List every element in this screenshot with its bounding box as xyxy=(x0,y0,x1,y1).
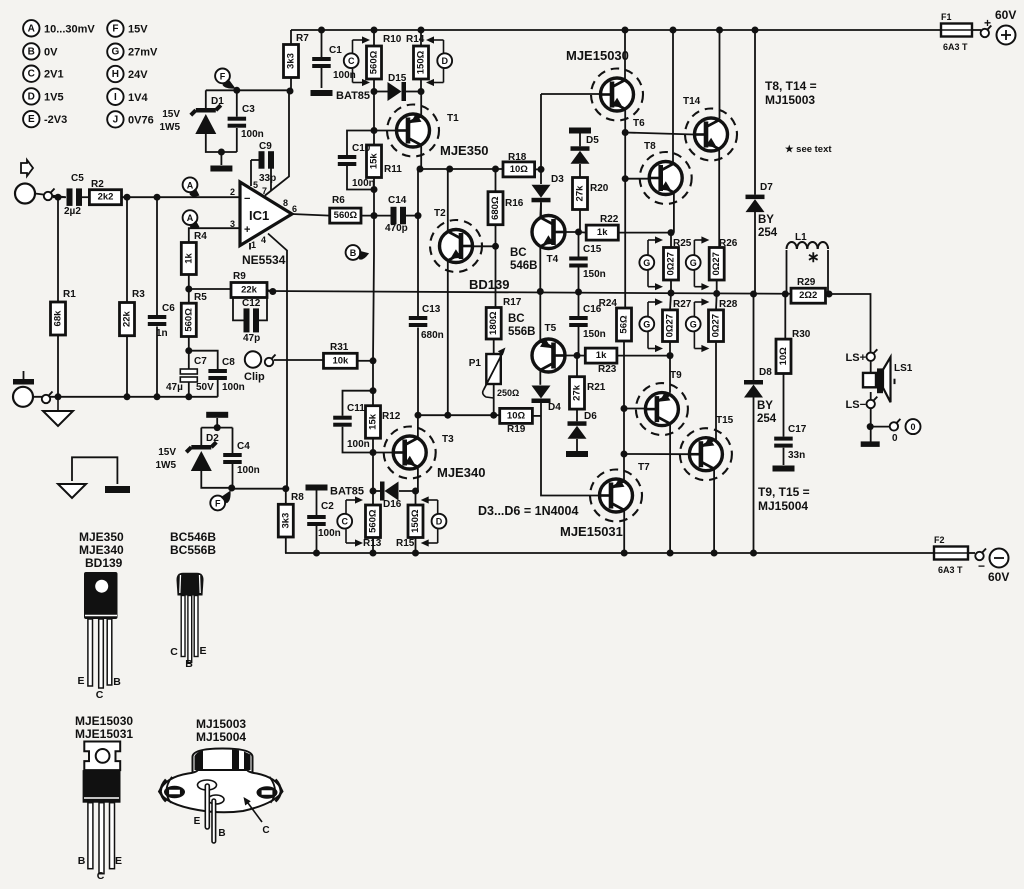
wire C12 left leg xyxy=(233,298,244,320)
svg-text:G: G xyxy=(112,47,120,58)
svg-text:27mV: 27mV xyxy=(128,47,158,59)
resistor R4 xyxy=(181,231,207,275)
svg-text:27k: 27k xyxy=(572,384,583,401)
svg-text:-2V3: -2V3 xyxy=(44,114,67,126)
svg-text:0: 0 xyxy=(892,433,898,444)
legend node H xyxy=(107,66,148,82)
IC1 pin 5 label xyxy=(253,180,258,190)
wire R28 bottom xyxy=(715,342,717,441)
wire D16 to R15 node xyxy=(399,490,416,492)
junction R22/R25 xyxy=(668,229,675,236)
wire C1 top xyxy=(321,30,323,57)
IC1 pin 1 label xyxy=(251,240,256,250)
wire T5 base to R23 xyxy=(577,355,585,357)
svg-text:150n: 150n xyxy=(583,329,606,340)
wire T8 base xyxy=(625,178,649,180)
wire T5 base xyxy=(557,355,577,357)
wire IC1 pin4 xyxy=(268,234,287,489)
note output transistors pnp xyxy=(758,485,810,499)
wire top rail fuse to terminal xyxy=(972,29,981,31)
wire R27 bottom xyxy=(669,342,671,393)
svg-text:D1: D1 xyxy=(211,96,224,107)
svg-text:0Ω27: 0Ω27 xyxy=(711,252,722,275)
svg-text:F: F xyxy=(215,499,221,509)
label D3...D6 xyxy=(478,504,578,518)
junction C6 top xyxy=(154,194,161,201)
resistor R22 xyxy=(586,214,619,240)
svg-text:C11: C11 xyxy=(347,403,365,414)
junction C14/bootstrap xyxy=(415,212,422,219)
junction LS-/ground xyxy=(867,423,874,430)
svg-text:1W5: 1W5 xyxy=(159,122,180,133)
legend node B xyxy=(23,43,58,59)
svg-text:R26: R26 xyxy=(719,238,738,249)
wire T4 emitter xyxy=(539,246,541,291)
svg-text:C12: C12 xyxy=(242,298,261,309)
connector 0 xyxy=(890,419,901,431)
svg-text:R6: R6 xyxy=(332,195,345,206)
svg-text:MJE350: MJE350 xyxy=(440,143,488,158)
bracket D/R15 xyxy=(421,496,438,546)
diode D16 xyxy=(380,482,402,511)
svg-text:BAT85: BAT85 xyxy=(330,486,364,498)
junction rail/D8 xyxy=(750,550,757,557)
svg-text:546B: 546B xyxy=(510,260,538,272)
svg-text:MJ15004: MJ15004 xyxy=(758,499,808,513)
transistor T6 MJE15030 xyxy=(566,48,645,129)
op-amp IC1 NE5534 xyxy=(240,182,292,246)
svg-text:−: − xyxy=(978,559,985,573)
wire T3 base xyxy=(373,452,393,454)
svg-text:MJE15031: MJE15031 xyxy=(75,727,133,741)
wire R1 bottom xyxy=(57,335,59,397)
wire D2/C4 loop top xyxy=(201,427,232,429)
svg-text:2Ω2: 2Ω2 xyxy=(799,290,817,301)
svg-text:D7: D7 xyxy=(760,182,773,193)
svg-text:C13: C13 xyxy=(422,304,441,315)
capacitor C13 xyxy=(409,304,444,341)
svg-text:R16: R16 xyxy=(505,198,524,209)
junction rail/T6 xyxy=(622,27,629,34)
svg-text:1k: 1k xyxy=(597,227,608,238)
svg-text:E: E xyxy=(77,675,84,687)
junction R6/R11 line xyxy=(371,212,378,219)
junction R9 right/output line xyxy=(269,288,276,295)
wire D16 row xyxy=(373,490,380,492)
label BAT85 top xyxy=(336,90,370,102)
svg-text:150Ω: 150Ω xyxy=(410,509,421,533)
wire C12 right leg xyxy=(257,298,268,320)
IC1 pin 4 label xyxy=(261,235,266,245)
wire output/feedback line xyxy=(267,291,829,294)
junction T1 base xyxy=(371,127,378,134)
measure point A (pin2) xyxy=(183,177,200,196)
bracket G/R26 xyxy=(694,236,709,290)
svg-text:68k: 68k xyxy=(53,310,64,327)
svg-text:T9: T9 xyxy=(670,370,682,381)
junction pin4/R8 xyxy=(282,485,289,492)
legend node A xyxy=(23,20,95,36)
wire C7 bottom xyxy=(188,382,190,397)
junction rail/R3 xyxy=(124,393,131,400)
wire bias vertical to R24 xyxy=(624,230,626,308)
wire T14 base xyxy=(625,133,694,135)
wire C2 top xyxy=(316,491,318,516)
svg-text:470p: 470p xyxy=(385,223,408,234)
svg-text:+: + xyxy=(984,16,991,30)
capacitor C11 xyxy=(333,403,370,450)
diode D1 zener xyxy=(159,96,224,134)
svg-text:R20: R20 xyxy=(590,183,609,194)
resistor R16 xyxy=(488,192,524,225)
input connector bottom contact xyxy=(42,392,53,404)
wire IC1 output xyxy=(292,214,330,216)
wire T15 collector xyxy=(713,469,715,554)
junction C15/C16 output xyxy=(575,289,582,296)
junction rail/R1 xyxy=(55,393,62,400)
svg-text:C: C xyxy=(348,56,355,66)
svg-text:R14: R14 xyxy=(406,34,425,45)
svg-text:I: I xyxy=(114,92,117,103)
svg-text:100n: 100n xyxy=(222,382,245,393)
wire T8e to R25 xyxy=(670,233,672,248)
svg-text:R8: R8 xyxy=(291,492,304,503)
wire T4 base to R22 xyxy=(579,231,587,234)
ground bar speaker xyxy=(861,441,880,447)
resistor R2 xyxy=(89,179,121,205)
transistor T4 BC546B xyxy=(510,216,565,273)
svg-text:22k: 22k xyxy=(241,285,258,296)
transistor T8 xyxy=(640,141,692,204)
svg-text:D3...D6 = 1N4004: D3...D6 = 1N4004 xyxy=(478,504,578,518)
svg-text:J: J xyxy=(113,114,119,125)
svg-text:560Ω: 560Ω xyxy=(368,509,379,533)
svg-text:MJE350: MJE350 xyxy=(79,530,124,544)
svg-text:MJE15031: MJE15031 xyxy=(560,524,623,539)
input jack arrow symbol xyxy=(21,160,33,176)
wire C4 bottom xyxy=(232,464,234,488)
ground symbol triangle xyxy=(58,484,86,498)
svg-text:56Ω: 56Ω xyxy=(619,315,630,334)
wire F node to R8 xyxy=(232,488,286,490)
junction T2 base xyxy=(492,243,499,250)
wire LS- down xyxy=(870,408,872,441)
wire T8 collector xyxy=(672,30,674,162)
wire Clip to R31 xyxy=(274,359,324,361)
wire T1 collector xyxy=(418,145,421,169)
junction R23/R27 xyxy=(667,352,674,359)
measure point D top xyxy=(437,53,452,68)
wire T1 base xyxy=(374,130,397,132)
resistor R25 xyxy=(664,238,692,280)
resistor R20 xyxy=(573,178,609,210)
terminal bar D6 bottom xyxy=(566,451,588,457)
wire D6 bottom stem xyxy=(576,439,578,451)
diode D3 xyxy=(532,174,565,202)
svg-text:D6: D6 xyxy=(584,411,597,422)
wire input to C5 xyxy=(35,194,65,198)
connector LS- xyxy=(846,397,878,411)
wire C10 bottom leg xyxy=(347,166,374,190)
terminal bar C2 top xyxy=(306,485,328,491)
wire node to R9 xyxy=(189,288,231,290)
svg-text:0Ω27: 0Ω27 xyxy=(665,314,676,337)
wire driver vertical mid xyxy=(373,216,374,391)
wire bootstrap vertical xyxy=(417,169,419,316)
terminal -60V xyxy=(978,549,1009,585)
resistor R15 xyxy=(396,505,423,549)
resistor R9 xyxy=(231,271,267,298)
wire D1 leg xyxy=(205,90,207,108)
wire R3 bottom xyxy=(126,336,128,397)
svg-text:100n: 100n xyxy=(318,528,341,539)
wire R16 bottom xyxy=(495,225,497,247)
svg-text:B: B xyxy=(78,855,86,867)
svg-text:Clip: Clip xyxy=(244,371,265,383)
svg-text:0V76: 0V76 xyxy=(128,114,154,126)
wire C6 stem top xyxy=(156,197,158,315)
IC1 pin 2 label xyxy=(230,187,235,197)
capacitor C5 xyxy=(64,173,84,217)
measure point G 2 xyxy=(686,255,701,270)
measure point F top xyxy=(215,69,235,89)
svg-text:33n: 33n xyxy=(788,450,805,461)
svg-text:D: D xyxy=(436,517,443,527)
svg-text:F: F xyxy=(112,24,118,35)
wire T2 base xyxy=(473,245,496,247)
svg-text:T3: T3 xyxy=(442,434,454,445)
junction R7 bottom xyxy=(287,88,294,95)
svg-text:R5: R5 xyxy=(194,292,207,303)
junction rail/R15 xyxy=(412,550,419,557)
chassis bar above bottom connector xyxy=(13,371,34,385)
wire R2 to IC1 pin2 xyxy=(122,196,241,198)
svg-text:G: G xyxy=(643,258,650,268)
junction R11/C10 bottom xyxy=(371,186,378,193)
wire C9 left xyxy=(251,159,259,161)
wire R17 to P1 xyxy=(493,339,495,354)
svg-text:R15: R15 xyxy=(396,538,415,549)
svg-text:60V: 60V xyxy=(995,8,1016,22)
legend node I xyxy=(107,89,148,105)
junction P1/R19 line xyxy=(490,412,497,419)
wire R28 top xyxy=(715,294,718,310)
svg-text:BC546B: BC546B xyxy=(170,530,216,544)
svg-text:15V: 15V xyxy=(162,109,180,120)
svg-text:2k2: 2k2 xyxy=(98,192,114,203)
svg-text:C2: C2 xyxy=(321,501,334,512)
junction rail/T7 xyxy=(621,550,628,557)
note output transistors pnp 2 xyxy=(758,499,808,513)
wire T6 base line xyxy=(541,93,603,95)
junction rail/C6 xyxy=(154,393,161,400)
wire R14 to D15 node xyxy=(420,79,422,92)
resistor R27 xyxy=(663,299,692,342)
svg-text:C9: C9 xyxy=(259,141,272,152)
wire D3 chain top xyxy=(540,94,542,184)
bracket C/R13 xyxy=(346,496,363,546)
wire R8 bottom xyxy=(285,537,287,553)
svg-text:C1: C1 xyxy=(329,45,342,56)
wire -60V bottom rail xyxy=(285,552,934,554)
wire C4 leg xyxy=(232,428,234,453)
wire R27 top xyxy=(670,293,671,310)
svg-text:T1: T1 xyxy=(447,113,459,124)
transistor T9 xyxy=(636,370,688,435)
wire D8 bottom xyxy=(753,398,755,554)
svg-text:E: E xyxy=(199,645,206,657)
capacitor C15 xyxy=(569,244,606,280)
svg-text:−: − xyxy=(244,193,250,205)
svg-text:BY: BY xyxy=(758,214,774,226)
wire T4 base xyxy=(557,231,579,233)
legend node G xyxy=(107,44,158,60)
wire R9 to output line xyxy=(267,290,273,292)
svg-text:R24: R24 xyxy=(599,298,618,309)
terminal bar D2/C4 top xyxy=(206,412,228,418)
resistor R18 xyxy=(503,152,535,177)
svg-text:G: G xyxy=(643,320,650,330)
IC1 type NE5534 xyxy=(242,253,286,267)
svg-text:R31: R31 xyxy=(330,342,349,353)
label 0 xyxy=(892,433,898,444)
wire D5 stem xyxy=(579,134,581,147)
junction D1/C3 node F xyxy=(233,87,240,94)
resistor R11 xyxy=(367,145,403,178)
transistor T1 MJE350 xyxy=(387,105,488,159)
potentiometer P1 xyxy=(469,348,519,399)
svg-text:6: 6 xyxy=(292,204,297,214)
svg-text:R10: R10 xyxy=(383,34,402,45)
legend node J xyxy=(107,111,154,127)
svg-text:R28: R28 xyxy=(719,299,738,310)
legend node C xyxy=(23,66,63,82)
capacitor C4 xyxy=(223,441,260,476)
wire C16 stem xyxy=(578,292,580,316)
wire C15 stem xyxy=(578,232,580,257)
svg-text:E: E xyxy=(115,855,122,867)
wire D7 top xyxy=(754,30,756,195)
svg-text:100n: 100n xyxy=(241,129,264,140)
junction rail/C7 xyxy=(185,393,192,400)
svg-text:+: + xyxy=(244,224,250,236)
wire R21 stem xyxy=(576,356,578,377)
diode D15 xyxy=(388,73,407,101)
svg-text:BC556B: BC556B xyxy=(170,543,216,557)
svg-text:47p: 47p xyxy=(243,333,260,344)
wire C5 to R2 xyxy=(80,196,89,198)
svg-text:F: F xyxy=(220,71,226,81)
wire R10 top xyxy=(373,30,375,46)
wire LS+ to speaker xyxy=(870,361,872,373)
svg-text:D3: D3 xyxy=(551,174,564,185)
fuse F2 xyxy=(934,535,968,575)
svg-text:5: 5 xyxy=(253,180,258,190)
wire T14 emitter xyxy=(718,149,720,248)
svg-text:LS+: LS+ xyxy=(846,352,866,364)
resistor R5 xyxy=(181,292,207,337)
wire C6 bottom xyxy=(156,327,158,397)
svg-text:NE5534: NE5534 xyxy=(242,253,286,267)
wire R14 top xyxy=(420,30,422,46)
svg-text:C17: C17 xyxy=(788,424,807,435)
svg-text:1V5: 1V5 xyxy=(44,91,64,103)
svg-text:BY: BY xyxy=(757,400,773,412)
wire R4 to R5 xyxy=(188,275,190,304)
svg-text:33p: 33p xyxy=(259,173,276,184)
measure point A (pin3) xyxy=(183,210,200,229)
wire R11 top xyxy=(373,131,375,146)
wire D3 to T4 xyxy=(540,202,542,217)
connector -60V xyxy=(975,549,986,561)
transistor T2 BD139 xyxy=(430,208,509,292)
package TO-92 BC546B/BC556B xyxy=(170,530,216,670)
svg-text:3k3: 3k3 xyxy=(286,53,297,69)
svg-text:R30: R30 xyxy=(792,329,811,340)
svg-text:T2: T2 xyxy=(434,208,446,219)
junction R31/vertical xyxy=(370,357,377,364)
junction R16 top xyxy=(492,166,499,173)
svg-text:BD139: BD139 xyxy=(469,277,509,292)
junction input/R1 xyxy=(55,194,62,201)
transistor T15 xyxy=(680,415,734,480)
svg-text:R29: R29 xyxy=(797,277,816,288)
svg-text:47µ: 47µ xyxy=(166,382,183,393)
wire T14 collector xyxy=(719,30,721,119)
junction rail/R10 xyxy=(371,27,378,34)
wire IC1 pin3 xyxy=(189,228,240,242)
junction rail/R13 xyxy=(370,550,377,557)
svg-text:G: G xyxy=(690,258,697,268)
svg-text:BAT85: BAT85 xyxy=(336,90,370,102)
junction rail/T8 xyxy=(670,27,677,34)
wire R15 top xyxy=(415,491,417,505)
resistor R31 xyxy=(324,342,358,368)
svg-text:T6: T6 xyxy=(633,118,645,129)
svg-text:R22: R22 xyxy=(600,214,619,225)
svg-text:MJ15003: MJ15003 xyxy=(765,93,815,107)
measure point G 4 xyxy=(686,317,701,332)
note output transistors npn xyxy=(765,79,817,93)
wire T5 collector to D4 xyxy=(539,370,541,385)
wire T6 collector xyxy=(624,30,626,79)
svg-text:MJE15030: MJE15030 xyxy=(75,714,133,728)
wire R8 top xyxy=(285,489,287,505)
terminal bar C1 xyxy=(311,90,333,96)
resistor R14 xyxy=(406,34,429,79)
svg-text:E: E xyxy=(194,816,201,827)
junction T15 base xyxy=(621,451,628,458)
wire R16 to T2 base xyxy=(495,169,497,192)
svg-text:1k: 1k xyxy=(596,350,607,361)
svg-text:MJE15030: MJE15030 xyxy=(566,48,629,63)
capacitor C12 xyxy=(242,298,261,344)
legend node E xyxy=(23,111,67,127)
svg-text:100n: 100n xyxy=(352,178,375,189)
svg-text:15V: 15V xyxy=(128,24,148,36)
svg-text:C: C xyxy=(97,870,105,882)
resistor R30 xyxy=(776,329,811,374)
svg-text:10Ω: 10Ω xyxy=(510,164,529,175)
resistor R26 xyxy=(709,238,738,280)
wire P1 bottom xyxy=(493,384,495,415)
svg-text:6A3 T: 6A3 T xyxy=(943,42,968,52)
diode D4 xyxy=(532,386,562,414)
measure point B xyxy=(346,245,369,260)
svg-text:22k: 22k xyxy=(122,310,133,327)
transistor T14 xyxy=(683,96,737,161)
wire R6 to C14 xyxy=(361,215,391,217)
